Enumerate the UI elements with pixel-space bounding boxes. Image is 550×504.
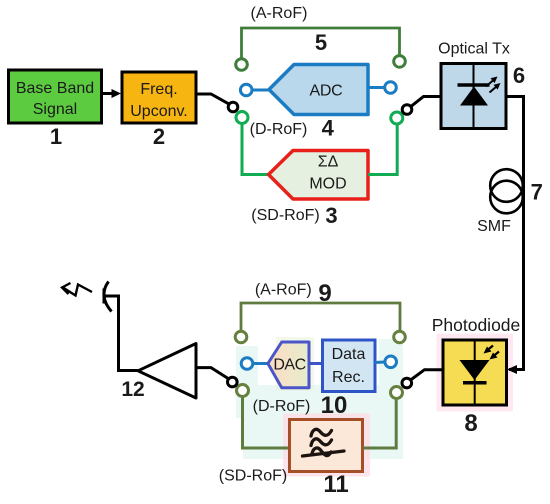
wire switch S4 down to filter — [243, 397, 290, 449]
svg-text:6: 6 — [513, 63, 525, 88]
switch S3 throw A-RoF (olive circle right) — [394, 331, 406, 343]
switch S4 throw D-RoF (blue circle left) — [241, 358, 253, 370]
svg-text:(D-RoF): (D-RoF) — [253, 398, 311, 415]
A-RoF bypass wire 5 (top) — [242, 28, 400, 59]
block 2: Freq. Upconv. — [122, 72, 196, 123]
pink glow behind filter — [283, 414, 370, 477]
switch S2 throw A-RoF (green circle right) — [394, 56, 406, 68]
RF radiation zigzag arrow — [63, 285, 92, 296]
block 8: Photodiode — [443, 340, 507, 405]
laser diode triangle — [460, 87, 488, 106]
svg-text:10: 10 — [321, 392, 348, 419]
svg-text:Rec.: Rec. — [332, 369, 365, 386]
pink glow behind photodiode — [437, 334, 514, 412]
svg-text:(D-RoF): (D-RoF) — [250, 121, 308, 138]
wire Data Rec to switch S3 — [375, 361, 385, 365]
svg-text:Data: Data — [332, 346, 366, 363]
filter wave 2 — [311, 439, 332, 446]
fiber wire from Optical Tx down — [506, 97, 524, 370]
wire block2 to switch S1 pole — [196, 94, 229, 104]
wire ADC output — [368, 86, 385, 89]
switch S3 pole — [402, 378, 412, 388]
highlight glow band right near photodiode switch — [379, 339, 403, 418]
A-RoF bypass wire 9 (bottom) — [241, 303, 400, 331]
svg-text:2: 2 — [153, 124, 165, 149]
laser diode bar — [458, 83, 490, 87]
svg-text:Signal: Signal — [33, 101, 77, 118]
switch S4 throw A-RoF (olive circle left) — [235, 331, 247, 343]
svg-text:4: 4 — [322, 116, 335, 141]
svg-text:3: 3 — [325, 203, 337, 228]
laser emission arrow 2 — [490, 87, 497, 93]
switch S4 pole — [228, 377, 238, 387]
svg-text:7: 7 — [531, 180, 543, 205]
wire to DAC input — [253, 362, 269, 365]
wire to ADC input — [252, 89, 270, 92]
highlight glow band left of DAC switch — [236, 346, 258, 418]
svg-text:(SD-RoF): (SD-RoF) — [251, 207, 319, 224]
arrow wire block1 to block2 — [102, 89, 121, 98]
svg-text:Base Band: Base Band — [16, 80, 94, 97]
photodiode bar — [463, 381, 487, 385]
switch S1 pole — [228, 102, 238, 112]
block 11: filter — [290, 420, 363, 472]
wire switch S1 to sigma-delta mod — [242, 124, 269, 175]
wire switch S2 to Optical Tx — [411, 97, 441, 107]
svg-text:5: 5 — [315, 30, 327, 55]
photodiode triangle — [460, 360, 490, 380]
svg-text:Freq.: Freq. — [140, 81, 177, 98]
switch S2 throw D-RoF (blue circle right) — [385, 82, 397, 94]
antenna element — [103, 289, 106, 304]
antenna feed wire — [119, 295, 139, 371]
block 1: Base Band Signal — [9, 70, 102, 123]
svg-text:(SD-RoF): (SD-RoF) — [219, 468, 287, 485]
filter wave 1 — [311, 429, 332, 436]
block 10: Data Rec. — [323, 340, 376, 392]
block DAC — [268, 342, 309, 388]
amplifier 12 — [138, 344, 196, 399]
wire photodiode to switch S3 pole — [411, 370, 443, 380]
laser emission arrow 1 — [486, 80, 494, 87]
switch S4 throw SD-RoF (olive circle left) — [237, 385, 249, 397]
incoming light arrow 1 — [487, 346, 493, 351]
svg-text:SMF: SMF — [477, 218, 511, 235]
glow behind DAC — [276, 337, 314, 391]
switch S3 throw D-RoF (blue circle right) — [385, 356, 397, 368]
svg-text:DAC: DAC — [273, 357, 305, 374]
highlight glow flank right of filter — [362, 413, 403, 459]
svg-text:ADC: ADC — [310, 83, 343, 100]
svg-text:8: 8 — [464, 410, 477, 437]
highlight glow flank left of filter — [243, 413, 290, 459]
wire filter output to switch S3 — [363, 399, 396, 449]
svg-text:12: 12 — [121, 378, 144, 401]
switch S1 throw SD-RoF (bright green circle) — [236, 112, 248, 124]
svg-text:Optical Tx: Optical Tx — [438, 41, 510, 58]
antenna feed horizontal — [104, 295, 119, 298]
highlight glow band across D-RoF label row — [236, 385, 403, 418]
svg-text:Upconv.: Upconv. — [130, 103, 188, 120]
svg-text:11: 11 — [323, 471, 348, 498]
svg-text:MOD: MOD — [309, 176, 346, 193]
switch S2 throw SD-RoF (bright green circle right) — [391, 112, 403, 124]
fiber arrow into photodiode — [507, 365, 517, 374]
svg-text:Photodiode: Photodiode — [432, 315, 521, 335]
SMF coil 7 — [490, 169, 523, 213]
block 6: Optical Tx — [441, 64, 506, 129]
svg-text:(A-RoF): (A-RoF) — [255, 282, 312, 299]
svg-text:1: 1 — [50, 124, 62, 149]
switch S1 throw A-RoF (green circle) — [236, 59, 248, 71]
filter strike line — [303, 451, 345, 456]
switch S1 throw D-RoF (blue circle) — [240, 84, 252, 96]
svg-text:ΣΔ: ΣΔ — [318, 154, 339, 171]
wire amplifier output to switch S4 pole — [196, 368, 229, 379]
switch S3 throw SD-RoF (olive circle right) — [391, 387, 403, 399]
wire DAC to Data Rec — [309, 362, 323, 365]
antenna dish arc — [104, 282, 112, 312]
switch S2 pole — [402, 105, 412, 115]
block 4: ADC — [269, 65, 368, 115]
svg-text:9: 9 — [318, 280, 331, 307]
block 3: Sigma-Delta MOD — [269, 151, 369, 200]
wire sigma-delta mod output — [368, 124, 397, 175]
incoming light arrow 2 — [493, 352, 499, 357]
filter wave 3 — [312, 448, 331, 456]
svg-text:(A-RoF): (A-RoF) — [251, 5, 308, 22]
